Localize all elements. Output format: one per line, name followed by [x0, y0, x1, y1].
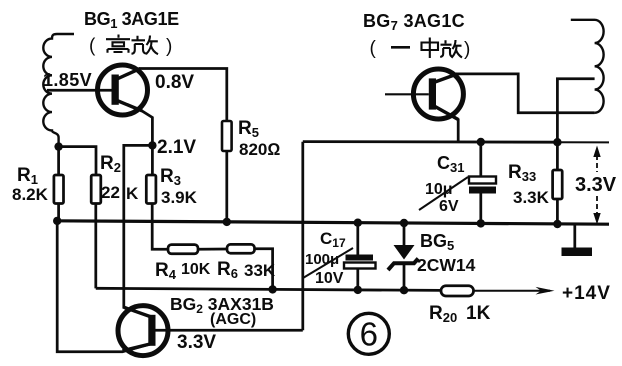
resistor R6	[227, 244, 255, 253]
wire main emitter/ground bus	[54, 221, 610, 224]
feed dot BG5	[400, 286, 408, 294]
svg-text:+14V: +14V	[562, 283, 611, 304]
svg-text:(: (	[89, 36, 96, 57]
svg-text:1.85V: 1.85V	[43, 70, 92, 90]
svg-text:(: (	[370, 38, 377, 59]
resistor R1	[54, 175, 64, 204]
wire dimension reference extension top	[557, 141, 609, 143]
wire node A to R1 top	[57, 147, 60, 175]
AGC node dot	[268, 285, 276, 293]
node A dot	[54, 142, 62, 150]
bus dot R5	[223, 218, 231, 226]
feed dot C17	[354, 286, 362, 294]
svg-text:2.1V: 2.1V	[157, 137, 196, 158]
wire R2 bottom to AGC feed line	[94, 204, 97, 289]
svg-text:2CW14: 2CW14	[417, 255, 476, 275]
zener diode BG5	[388, 223, 418, 290]
resistor R5	[222, 121, 232, 151]
wire BG1 base lead	[47, 89, 112, 92]
wire R5 bottom to bus	[225, 151, 228, 222]
bus dot BG5	[400, 219, 408, 227]
svg-text:0.8V: 0.8V	[155, 72, 194, 93]
glyph 中	[422, 38, 439, 59]
ground	[562, 224, 593, 256]
resistor R33	[553, 170, 563, 199]
transistor BG2	[118, 306, 168, 356]
svg-text:10V: 10V	[315, 270, 344, 287]
bus dot R1	[53, 217, 61, 225]
wire node A to R2 top	[59, 147, 96, 175]
wire AGC / +14V feed line	[96, 288, 441, 290]
node dot C31 top	[477, 138, 485, 146]
wire BG7 collector to IF coil bottom	[457, 74, 595, 113]
node 2.1V dot	[148, 141, 156, 149]
inductor L1 antenna coil	[43, 34, 74, 147]
svg-text:33K: 33K	[244, 261, 276, 280]
wire BG2 base riser to node line	[301, 142, 304, 331]
svg-text:3.9K: 3.9K	[161, 188, 198, 207]
glyph 放	[132, 36, 159, 55]
wire coil tap to R33	[557, 79, 594, 170]
capacitor C17	[344, 223, 376, 290]
bus dot C31 bottom	[477, 219, 485, 227]
wire BG1 collector to R5 top	[139, 69, 227, 122]
svg-text:3.3V: 3.3V	[177, 332, 216, 353]
wire bus to BG2 emitter	[57, 221, 150, 352]
transistor BG7	[413, 69, 463, 120]
wire node 2.1V to BG2 collector riser	[124, 145, 153, 316]
transistor BG1	[98, 65, 148, 115]
svg-text:BG1 3AG1E: BG1 3AG1E	[84, 9, 179, 31]
wire R6 to AGC node	[255, 249, 273, 289]
wire R1 bottom to bus	[57, 204, 60, 221]
wire BG1 emitter to node 2.1V and R3	[141, 110, 152, 175]
svg-text:6V: 6V	[439, 198, 459, 215]
svg-text:3.3V: 3.3V	[575, 174, 617, 196]
bus dot C17	[354, 219, 362, 227]
dimension arrow 3.3V	[593, 146, 600, 225]
svg-text:K: K	[126, 184, 139, 203]
svg-text:22: 22	[101, 183, 120, 202]
resistor R2	[91, 175, 101, 204]
svg-text:6: 6	[360, 316, 378, 353]
slash C31	[419, 177, 468, 210]
label BG1 function (高放)	[89, 35, 172, 58]
glyph 放	[440, 40, 462, 58]
wire R4 to R6	[198, 248, 227, 251]
svg-text:BG7 3AG1C: BG7 3AG1C	[363, 11, 465, 33]
arrow +14V	[536, 287, 555, 295]
bus dot R33 bottom	[553, 220, 561, 228]
resistor R4	[168, 245, 198, 254]
svg-text:3.3K: 3.3K	[513, 188, 550, 207]
inductor L2 IF transformer coil	[571, 20, 604, 113]
figure number 6 in circle	[348, 313, 389, 354]
svg-text:10K: 10K	[181, 261, 211, 278]
node dot R33 top	[553, 138, 561, 146]
svg-text:820Ω: 820Ω	[239, 140, 280, 159]
svg-text:): )	[464, 39, 470, 60]
svg-text:8.2K: 8.2K	[12, 185, 49, 204]
glyph 高	[106, 35, 130, 53]
resistor R20	[441, 286, 474, 296]
wire R20 to +14V arrow	[474, 290, 551, 292]
glyph 一	[391, 46, 410, 49]
resistor R3	[146, 175, 156, 204]
slash C17	[303, 248, 353, 278]
svg-text:(AGC): (AGC)	[210, 311, 256, 328]
wire BG2 base lead	[156, 329, 303, 332]
capacitor C31	[469, 142, 496, 224]
svg-text:): )	[166, 36, 172, 57]
label BG7 function (一中放)	[370, 38, 471, 61]
wire R33 bottom to bus	[556, 199, 559, 224]
svg-text:1K: 1K	[466, 303, 491, 324]
wire BG7 emitter down to node line	[457, 119, 460, 142]
wire R3 bottom to R4	[152, 204, 168, 250]
wire BG7 base stub	[385, 93, 429, 95]
wire emitter node line y142	[303, 140, 558, 143]
